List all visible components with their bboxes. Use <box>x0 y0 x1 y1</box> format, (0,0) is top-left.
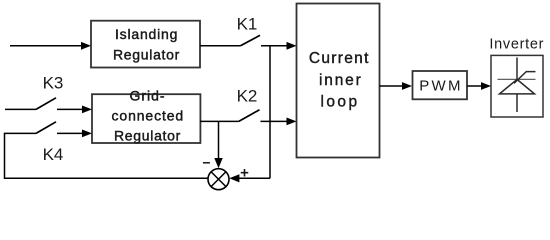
wire: Islanding Regulator output <box>200 45 241 47</box>
svg-text:PWM: PWM <box>419 78 463 95</box>
svg-text:inner: inner <box>319 72 363 89</box>
switch K3 blade <box>36 98 56 110</box>
svg-text:+: + <box>240 164 249 181</box>
wire: K3 to Grid-connected Regulator input <box>57 106 92 114</box>
inverter thyristor symbol <box>498 58 536 113</box>
block: Current inner loop <box>297 4 380 158</box>
svg-text:Grid-: Grid- <box>129 87 165 103</box>
switch K1 blade <box>241 35 261 46</box>
block: Grid-connected Regulator <box>92 87 200 143</box>
wire: vertical feedback tap from K1 line down to summing input <box>269 46 271 179</box>
wire: plus input into summing node from feedback tap <box>229 174 270 182</box>
svg-text:loop: loop <box>320 93 359 110</box>
svg-text:−: − <box>202 155 210 171</box>
wire: summing node output looping left and up to K4 <box>5 133 209 178</box>
switch K4 blade <box>36 122 56 134</box>
wire: PWM output to Inverter <box>467 82 491 90</box>
svg-text:Islanding: Islanding <box>115 26 178 42</box>
wire: K2 to Current inner loop input <box>261 118 297 126</box>
svg-text:K4: K4 <box>43 145 64 164</box>
block: PWM modulator <box>413 71 468 99</box>
wire: junction drop to summing node (minus input) <box>214 121 222 168</box>
wire: Current inner loop output to PWM <box>380 82 413 90</box>
svg-text:K2: K2 <box>237 86 258 105</box>
wire: Grid-connected Regulator output <box>200 120 239 122</box>
svg-text:connected: connected <box>112 107 185 123</box>
wire: K4 to Grid-connected Regulator input <box>57 130 92 138</box>
svg-text:Regulator: Regulator <box>114 127 181 143</box>
svg-text:Regulator: Regulator <box>113 46 180 62</box>
svg-text:Inverter: Inverter <box>489 37 544 53</box>
switch K2 blade <box>239 110 260 122</box>
svg-text:K1: K1 <box>237 14 258 33</box>
block: Inverter <box>489 37 544 117</box>
block: Islanding Regulator <box>91 21 200 68</box>
wire: reference input into Islanding Regulator <box>10 42 91 50</box>
wire: K3 input line <box>5 108 36 110</box>
summing junction node <box>208 169 229 190</box>
svg-text:Current: Current <box>309 50 370 67</box>
svg-text:K3: K3 <box>43 73 64 92</box>
wire: K1 to Current inner loop input <box>261 42 297 50</box>
